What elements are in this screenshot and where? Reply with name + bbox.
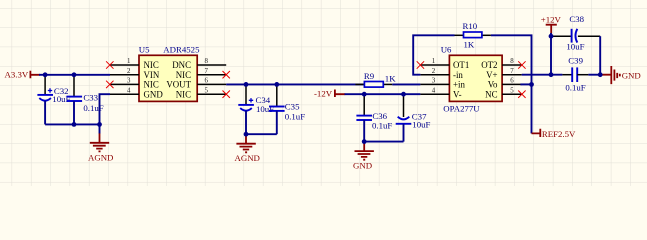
node junction GND tap [362, 139, 367, 144]
pin 7 U5 NIC [176, 68, 226, 80]
pin 6 U6 Vo [488, 78, 522, 90]
node junction C38/C39/GND [598, 72, 603, 77]
svg-text:GND: GND [353, 161, 372, 171]
pin 8 U6 OT2 [481, 58, 521, 70]
svg-text:8: 8 [205, 58, 209, 65]
svg-text:0.1uF: 0.1uF [285, 112, 305, 122]
pin 4 U5 GND [110, 87, 163, 99]
no-ERC X pin1 U6 [417, 61, 424, 68]
wire U5 pin4 to ground [100, 94, 111, 133]
capacitor C39 [562, 55, 588, 92]
pin 1 U6 OT1 [420, 58, 469, 70]
svg-text:NC: NC [485, 89, 497, 99]
node junction feedback/output [529, 82, 534, 87]
svg-text:NIC: NIC [176, 70, 191, 80]
ground AGND (middle) [235, 134, 260, 163]
pin 3 U6 +in [420, 78, 465, 90]
wire V+ rail U6 pin7 to C39 [522, 74, 563, 76]
svg-text:10uF: 10uF [566, 41, 584, 51]
node junction +12V/C38 [549, 34, 554, 39]
svg-text:NIC: NIC [144, 80, 159, 90]
no-ERC X pin5 U6 [518, 91, 525, 98]
svg-text:2: 2 [127, 68, 131, 75]
svg-text:REF2.5V: REF2.5V [542, 129, 576, 139]
op-amp U5 box ADR4525 [139, 44, 200, 101]
svg-text:GND: GND [144, 89, 164, 99]
wire feedback U6 pin2 up [413, 35, 454, 74]
svg-text:3: 3 [127, 78, 131, 85]
wire C39 to GND [588, 74, 601, 76]
svg-text:5: 5 [205, 87, 209, 94]
no-ERC X pin3 U5 [106, 81, 113, 88]
svg-text:NIC: NIC [176, 89, 191, 99]
node junction +12V/V+ rail [549, 72, 554, 77]
svg-text:AGND: AGND [88, 152, 113, 162]
op-amp U6 box OPA277U [441, 44, 502, 113]
svg-text:1K: 1K [385, 73, 396, 83]
svg-text:C33: C33 [83, 93, 98, 103]
svg-text:2: 2 [432, 68, 436, 75]
svg-text:GND: GND [622, 70, 641, 80]
svg-text:+12V: +12V [541, 15, 562, 25]
node junction C33/rail [72, 72, 77, 77]
resistor R10 [455, 21, 491, 49]
svg-text:C38: C38 [569, 14, 584, 24]
svg-text:DNC: DNC [172, 60, 191, 70]
wire U6 pin6 output [520, 83, 531, 85]
svg-text:1: 1 [432, 58, 436, 65]
wire +12V down to U6 pin7 [550, 33, 552, 75]
capacitor C32 [37, 75, 70, 125]
wire C38 right down to GND node [599, 36, 601, 74]
svg-text:4: 4 [127, 87, 131, 94]
power port A3.3V [5, 69, 41, 79]
node junction C32/rail [43, 72, 48, 77]
wire R10 right down to U6 pin6 [491, 35, 532, 84]
pin 2 U6 -in [420, 68, 463, 80]
power port REF2.5V [532, 129, 577, 139]
ground AGND (left) [88, 133, 113, 162]
svg-text:3: 3 [432, 78, 436, 85]
svg-text:0.1uF: 0.1uF [83, 103, 103, 113]
svg-text:ADR4525: ADR4525 [163, 44, 200, 54]
svg-text:1: 1 [127, 58, 131, 65]
svg-text:C35: C35 [285, 101, 300, 111]
pin 1 U5 NIC [110, 58, 159, 70]
capacitor C35 [269, 84, 305, 134]
svg-text:8: 8 [510, 58, 514, 65]
node junction C36/-12V rail [362, 92, 367, 97]
svg-text:6: 6 [510, 78, 514, 85]
node junction AGND tap [97, 122, 102, 127]
ground GND (middle) [353, 142, 374, 171]
svg-text:10uF: 10uF [412, 120, 430, 130]
node junction C37/-12V rail [401, 92, 406, 97]
svg-text:5: 5 [510, 87, 514, 94]
wire -12V rail to U6 pin4 [345, 93, 421, 95]
node junction C35/rail [274, 82, 279, 87]
svg-text:NIC: NIC [144, 60, 159, 70]
wire output down to REF2.5V [531, 84, 533, 133]
wire A3.3V rail [39, 74, 110, 76]
svg-text:10uF: 10uF [52, 94, 70, 104]
capacitor C33 [67, 75, 104, 125]
svg-text:0.1uF: 0.1uF [565, 83, 585, 93]
svg-text:A3.3V: A3.3V [5, 69, 29, 79]
svg-text:VOUT: VOUT [166, 80, 191, 90]
no-ERC X pin5 U5 [223, 91, 230, 98]
capacitor C38 [551, 14, 600, 52]
svg-text:C39: C39 [568, 55, 583, 65]
wire middle bottom rail [246, 133, 277, 135]
svg-text:7: 7 [205, 68, 209, 75]
svg-text:R10: R10 [463, 21, 478, 31]
pin 5 U5 NIC [176, 87, 226, 99]
svg-text:C36: C36 [372, 111, 387, 121]
svg-text:1K: 1K [464, 39, 475, 49]
svg-text:V+: V+ [486, 70, 497, 80]
pin 8 U5 DNC [172, 58, 226, 70]
capacitor C34 [238, 84, 274, 134]
capacitor C36 [356, 94, 392, 141]
svg-text:V-: V- [453, 89, 462, 99]
svg-text:-in: -in [453, 70, 463, 80]
ground GND (right, sideways) [601, 66, 641, 84]
wire VOUT rail U5 pin6 to R9 [226, 83, 364, 85]
wire C37 bottom to GND rail [364, 141, 403, 143]
node junction C33/bottom rail [72, 122, 77, 127]
svg-text:U6: U6 [441, 44, 452, 54]
svg-text:+in: +in [453, 80, 465, 90]
svg-text:6: 6 [205, 78, 209, 85]
svg-text:Vo: Vo [488, 80, 498, 90]
svg-text:-12V: -12V [314, 89, 333, 99]
svg-text:OPA277U: OPA277U [443, 104, 480, 114]
svg-text:OT2: OT2 [481, 60, 497, 70]
no-ERC X pin1 U5 [106, 61, 113, 68]
wire left bottom rail [45, 123, 99, 125]
svg-text:7: 7 [510, 68, 514, 75]
pin 2 U5 VIN [110, 68, 160, 80]
svg-text:OT1: OT1 [453, 60, 469, 70]
svg-text:4: 4 [432, 87, 436, 94]
pin 7 U6 V+ [486, 68, 522, 80]
pin 4 U6 V- [420, 87, 461, 99]
no-ERC X pin7 U5 [223, 71, 230, 78]
node junction AGND middle tap [244, 132, 249, 137]
wire R9 to U6 pin3 [392, 83, 420, 85]
resistor R9 [355, 71, 396, 87]
node junction C34/rail [244, 82, 249, 87]
power port -12V [314, 89, 345, 99]
svg-text:10uF: 10uF [256, 104, 274, 114]
pin 6 U5 VOUT [166, 78, 226, 90]
svg-text:U5: U5 [139, 44, 150, 54]
svg-text:AGND: AGND [235, 153, 260, 163]
pin 3 U5 NIC [110, 78, 159, 90]
power port +12V [541, 15, 562, 34]
svg-text:VIN: VIN [144, 70, 160, 80]
pin 5 U6 NC [485, 87, 522, 99]
capacitor C37 [396, 94, 431, 141]
no-ERC X pin8 U6 [518, 61, 525, 68]
svg-text:0.1uF: 0.1uF [372, 121, 392, 131]
svg-text:R9: R9 [364, 71, 375, 81]
